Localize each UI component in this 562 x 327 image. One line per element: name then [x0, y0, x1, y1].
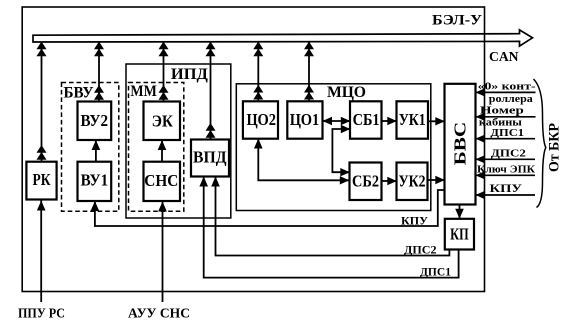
- wire «0» контроллера into БВС: [476, 88, 536, 96]
- svg-text:ДПС1: ДПС1: [490, 127, 524, 139]
- wire БВС to КП: [455, 205, 464, 219]
- wire ВУ1 to ВУ2: [92, 140, 101, 162]
- container ММ (dashed): [129, 83, 184, 212]
- block ЦО1: [287, 101, 322, 138]
- svg-text:ДПС2: ДПС2: [404, 243, 437, 257]
- block ВУ1: [78, 162, 112, 201]
- wire ЦО2 - СБ2 (bidirectional L): [254, 139, 349, 185]
- svg-text:СБ1: СБ1: [353, 110, 380, 129]
- wire УК2 to БВС: [428, 176, 445, 184]
- wire ДПС1 into БВС: [476, 135, 536, 143]
- svg-text:Номер: Номер: [480, 105, 524, 117]
- block СНС: [144, 162, 181, 201]
- wire bus drop to РК: [37, 42, 47, 162]
- wire bus drop to ЦО2: [253, 42, 263, 102]
- outer frame: [22, 7, 484, 292]
- bus БЭЛ-У with CAN arrow (body): [33, 30, 533, 46]
- svg-text:РК: РК: [33, 170, 51, 189]
- block УК1: [397, 101, 429, 138]
- svg-text:ДПС1: ДПС1: [420, 265, 451, 279]
- block СБ2: [350, 163, 382, 201]
- svg-text:КПУ: КПУ: [401, 214, 428, 228]
- svg-text:СНС: СНС: [144, 171, 178, 190]
- svg-text:УК1: УК1: [399, 110, 426, 129]
- svg-text:АУУ СНС: АУУ СНС: [128, 306, 190, 321]
- svg-text:«0» конт-: «0» конт-: [478, 81, 536, 93]
- wire bus drop to ВУ2: [94, 42, 104, 102]
- svg-text:ВУ1: ВУ1: [81, 171, 109, 190]
- svg-text:ВПД: ВПД: [193, 148, 227, 167]
- wire Номер кабины into БВС: [476, 113, 536, 121]
- wire ДПС2 from КП to ВПД: [211, 177, 449, 256]
- block КП: [445, 219, 474, 250]
- wire ЦО1 - СБ1 (bidirectional): [323, 117, 351, 125]
- svg-text:ИПД: ИПД: [171, 66, 208, 83]
- svg-text:ДПС2: ДПС2: [491, 148, 527, 160]
- svg-text:роллера: роллера: [489, 93, 534, 105]
- svg-text:ЦО2: ЦО2: [246, 110, 276, 129]
- wire КПУ from БВС to ВУ1: [91, 190, 445, 226]
- svg-text:ППУ РС: ППУ РС: [18, 306, 65, 321]
- wire bus drop to ЭК: [159, 42, 169, 102]
- wire Ключ ЭПК into БВС: [476, 171, 536, 179]
- svg-text:БВУ: БВУ: [64, 85, 95, 102]
- svg-text:БЭЛ-У: БЭЛ-У: [432, 13, 482, 29]
- block СБ1: [350, 101, 382, 138]
- wire СБ1 to УК1: [382, 117, 397, 125]
- svg-text:БВС: БВС: [451, 122, 470, 166]
- container ИПД (solid): [126, 64, 231, 218]
- block РК: [26, 162, 56, 200]
- wire КПУ into БВС: [476, 191, 536, 199]
- wire ДПС2 into БВС: [476, 155, 536, 163]
- wire СБ1 - СБ2 (bidirectional L): [332, 125, 350, 177]
- wire bus drop to ЦО1: [304, 42, 314, 102]
- block ЭК: [144, 102, 181, 141]
- svg-text:От БКР: От БКР: [547, 123, 562, 172]
- wire bus drop to ВПД: [206, 42, 216, 140]
- svg-text:СБ2: СБ2: [352, 172, 379, 191]
- brace От БКР: [534, 79, 546, 208]
- block УК2: [397, 163, 428, 201]
- svg-text:УК2: УК2: [399, 172, 426, 191]
- block БВС (vertical text): [445, 84, 476, 205]
- svg-text:CAN: CAN: [489, 50, 519, 65]
- wire УК1 to БВС: [428, 117, 445, 125]
- svg-text:КП: КП: [450, 225, 469, 244]
- block ЦО2: [243, 101, 278, 138]
- svg-text:ММ: ММ: [130, 83, 157, 100]
- wire СНС to ЭК: [158, 140, 167, 162]
- container БВУ (dashed): [62, 83, 119, 212]
- wire АУУ СНС to СНС: [158, 202, 167, 303]
- svg-text:ЦО1: ЦО1: [290, 110, 320, 129]
- wire СБ2 to УК2: [382, 177, 397, 185]
- svg-text:КПУ: КПУ: [490, 183, 523, 195]
- svg-text:Ключ ЭПК: Ключ ЭПК: [477, 163, 535, 175]
- wire ППУ РС to РК: [37, 200, 46, 302]
- svg-text:ЭК: ЭК: [152, 112, 173, 131]
- block ВУ2: [78, 102, 112, 141]
- container МЦО (solid): [236, 84, 430, 211]
- wire ДПС1 from КП to ВПД: [199, 177, 458, 278]
- svg-text:ВУ2: ВУ2: [81, 111, 109, 130]
- block ВПД: [191, 140, 229, 177]
- svg-text:МЦО: МЦО: [327, 84, 366, 101]
